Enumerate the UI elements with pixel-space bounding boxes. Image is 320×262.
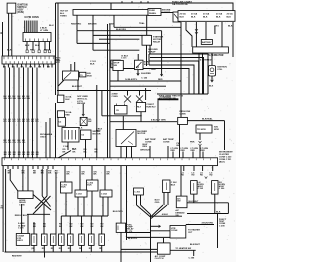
svg-text:ASSY: ASSY [17,239,23,242]
EGR solenoid [135,60,144,69]
wire [64,166,66,182]
svg-text:BK: BK [94,174,97,176]
cigar lighter [16,234,29,246]
wire drop fuse panel [146,16,148,36]
stubs into bar right [172,152,174,158]
wire [74,62,76,71]
svg-text:BK: BK [8,154,11,156]
wire [21,204,23,234]
bottom bus [5,251,158,253]
A/C relay [136,103,145,112]
svg-text:BK: BK [95,151,98,153]
battery [201,40,212,45]
wire run y214 [27,213,50,215]
svg-text:C 296: C 296 [219,188,225,190]
svg-text:BK: BK [177,145,180,147]
svg-text:SOL: SOL [144,64,149,66]
ignition coil inner [210,68,214,72]
svg-text:RD: RD [8,121,12,123]
junction crossing wires [33,195,51,211]
crossed wires [124,96,131,103]
svg-text:CONN: CONN [171,230,178,232]
wire [41,169,43,196]
ignition switch S1 [7,3,16,13]
svg-text:RD: RD [192,175,195,177]
svg-text:GRN BLK: GRN BLK [140,150,150,152]
svg-text:BK: BK [107,174,110,176]
svg-text:4 BLK/ORG: 4 BLK/ORG [202,222,214,225]
alternator [193,47,229,53]
wire run R2 [150,58,204,95]
svg-text:RED: RED [44,50,49,52]
component box [58,117,65,126]
wire [140,112,142,122]
wire [10,169,18,191]
svg-text:BLK: BLK [228,26,233,28]
svg-text:RELAY: RELAY [153,41,161,44]
wire [70,64,72,71]
svg-text:CONN: CONN [163,141,170,143]
svg-text:SW: SW [175,215,178,217]
horn component [191,181,198,195]
svg-text:WH: WH [13,98,17,100]
wire [82,104,84,115]
svg-text:4 BLK: 4 BLK [162,213,169,216]
wire [157,100,159,122]
wire stub [44,252,46,258]
svg-text:OG: OG [22,142,26,144]
wire [120,166,122,224]
wire [117,71,119,82]
wire [101,91,103,116]
wire [127,90,129,96]
svg-text:WH: WH [4,98,8,100]
svg-text:BK: BK [63,151,66,153]
wire run y31 [77,30,162,32]
svg-text:BLK: BLK [35,45,40,47]
EGR component [173,12,180,22]
svg-text:BK: BK [67,174,70,176]
wire run y39 [99,38,139,40]
wire [136,195,138,205]
wire [186,22,192,47]
wire [104,166,106,190]
wire [38,42,40,51]
wire [131,147,133,158]
svg-text:OG: OG [8,142,12,144]
wire [8,13,10,56]
wire [187,120,224,122]
wire [45,122,47,158]
connector C1 [23,33,51,42]
wire [232,22,234,57]
switch row bottom stubs [33,245,35,252]
svg-text:20 GA: 20 GA [191,13,198,16]
wire [91,191,93,216]
junction merge wires [137,205,151,217]
svg-text:BLK: BLK [216,212,221,214]
svg-text:TFI MOD: TFI MOD [197,129,206,131]
wire [199,146,201,158]
connector C201 [57,95,64,102]
svg-text:BLK: BLK [180,17,185,19]
bulkhead pin ticks [3,57,5,60]
svg-text:ENGINE: ENGINE [77,103,86,105]
svg-text:BLK: BLK [87,185,92,187]
wire run y27 [114,26,181,28]
wire [107,197,109,216]
svg-text:FUSE LINK CHART: FUSE LINK CHART [172,0,192,3]
svg-text:MOD: MOD [87,76,92,78]
svg-text:BLK: BLK [65,99,70,101]
instrument cluster connector C200 [2,158,218,166]
svg-text:CONN: CONN [112,96,119,98]
svg-text:BK: BK [38,66,42,68]
svg-text:MOTOR: MOTOR [137,133,145,135]
wire [55,3,57,95]
wire [198,53,200,94]
svg-text:BLK: BLK [227,17,232,19]
wire [167,146,169,158]
component box [111,60,121,68]
svg-text:BK: BK [22,154,25,156]
wire [193,194,195,203]
svg-text:CONN: CONN [179,113,186,115]
wire [43,204,45,216]
svg-text:OG: OG [18,142,22,144]
svg-text:OG: OG [13,142,17,144]
connector box C2xx [61,182,73,193]
svg-text:BK: BK [101,226,105,228]
svg-text:C 298: C 298 [189,258,196,260]
svg-text:BLK: BLK [203,17,208,19]
svg-text:RED/WHT: RED/WHT [12,256,22,258]
svg-text:C 241: C 241 [63,145,70,148]
svg-text:20 GA: 20 GA [203,13,210,16]
scan noise [3,2,235,258]
svg-text:BK: BK [73,151,76,153]
svg-text:C 254: C 254 [101,193,108,196]
wire run y203 [187,202,228,204]
wire [180,22,182,94]
A/C demand switch [176,196,187,208]
inline connectors [26,50,28,53]
svg-text:C 261: C 261 [134,192,141,194]
horn relay box [18,191,33,199]
svg-text:BLK/WHT: BLK/WHT [189,201,200,203]
wire run R3 [149,61,199,94]
svg-text:20 GA: 20 GA [216,13,223,16]
svg-text:RD: RD [181,175,184,177]
arrow [160,74,163,76]
wire run y250 [170,249,196,251]
wire [43,214,45,234]
svg-text:RD: RD [22,121,26,123]
svg-text:RD: RD [200,175,203,177]
data link connector [178,117,188,124]
A/C compressor clutch [157,243,170,254]
svg-text:CKT: CKT [188,232,193,234]
C200 top pin nubs [4,158,6,160]
wire [57,3,59,95]
connector C262 [163,180,170,193]
wire [96,85,98,158]
switch/lamp row [31,234,37,245]
wire run R1 [149,54,208,94]
heater connector [170,226,186,239]
wire drop fuse 3 [113,15,115,27]
wire [224,121,226,150]
svg-text:RED: RED [65,115,70,117]
svg-text:TIMES: TIMES [60,16,67,18]
wire [58,80,64,86]
wire [214,26,216,34]
wire [67,142,69,150]
wire [148,54,150,65]
wire [180,166,182,197]
svg-text:RD: RD [18,121,22,123]
wire run y232 [126,232,151,234]
wire [205,22,207,40]
svg-text:20 GA: 20 GA [227,13,234,16]
wire [85,140,87,158]
wire run R5 [120,69,189,95]
svg-text:PNK: PNK [190,142,195,144]
wire top bus y3 [56,3,234,11]
svg-text:RD: RD [13,121,17,123]
wire [49,118,51,158]
wire [214,194,216,213]
svg-text:BK: BK [27,154,30,156]
wire [33,222,35,234]
WOT cutoff bar [158,98,179,100]
svg-text:TEAL: TEAL [139,22,145,25]
wire [65,193,67,216]
svg-text:C 145: C 145 [141,77,148,80]
wire run y230 [151,230,171,232]
tick [147,1,149,3]
svg-text:BLU: BLU [49,25,54,27]
switch row top stubs [60,216,62,234]
stubs below C200 [7,166,9,169]
svg-text:RUN RLY: RUN RLY [146,106,156,108]
svg-text:CONN: CONN [145,141,152,143]
relay label box [79,72,86,77]
wire run y35 [93,35,150,54]
svg-text:MOD: MOD [214,129,219,131]
svg-text:BLK/WHT: BLK/WHT [190,244,201,246]
bulkhead bottom stubs [3,64,5,68]
fuse link arrows [199,141,202,143]
wire drop fuse 2 [92,15,94,50]
ignition coil [209,66,216,77]
svg-text:BK: BK [36,154,39,156]
svg-text:BK: BK [33,173,37,175]
fuse panel label box [148,9,161,16]
wire [32,42,34,51]
wire [102,197,104,216]
component box [196,125,212,133]
svg-text:RED/ORG: RED/ORG [71,24,82,26]
component box [212,181,218,195]
wire [161,12,173,14]
connector box C2xx [100,190,112,197]
wire [2,166,4,252]
svg-text:BATTERY: BATTERY [202,41,212,44]
svg-text:RLY: RLY [137,107,142,109]
svg-text:BK: BK [82,174,85,176]
wire [137,70,139,75]
wire [27,214,29,233]
svg-text:BK: BK [43,226,47,228]
svg-text:BLK/YEL: BLK/YEL [128,238,138,240]
svg-text:GA COLOR GA: GA COLOR GA [172,3,188,6]
svg-text:PANEL: PANEL [149,12,157,15]
svg-text:RD: RD [4,121,8,123]
tick [140,1,142,3]
relay inner contact [64,73,71,80]
wire [27,169,29,191]
wire [91,166,93,180]
svg-text:RD: RD [210,175,213,177]
wire [211,76,213,82]
wire [139,90,141,96]
wire [11,13,13,56]
wire [55,103,57,158]
starter relay K2 [142,35,152,45]
arrow [211,80,214,82]
wire [150,215,152,262]
component box top right [113,60,123,70]
svg-text:BK: BK [47,66,51,68]
wire [161,31,163,76]
svg-text:C 299: C 299 [219,225,226,227]
wiper motor assembly [62,128,79,143]
svg-text:BLK/RED: BLK/RED [141,73,151,75]
wire [110,3,112,10]
wire [5,169,7,252]
connector C202 [57,111,64,118]
4-way connector wires [107,24,109,158]
svg-text:WH: WH [27,98,31,100]
svg-text:BLK: BLK [171,184,176,186]
svg-text:BLK: BLK [7,50,12,52]
wire [121,248,157,250]
svg-text:TO HEATER SW: TO HEATER SW [175,247,191,250]
svg-text:BLK/ORG: BLK/ORG [116,29,126,31]
wire run y81 [110,80,182,82]
svg-text:BROWN: BROWN [88,24,97,26]
wire [149,146,151,158]
svg-text:COIL: COIL [217,69,223,71]
wire [120,232,122,252]
wire [46,169,48,196]
wire run y116 [102,115,142,117]
wire drop fuse 1 [76,15,78,31]
wire [145,88,147,100]
wire [79,166,81,190]
svg-text:BLK: BLK [209,86,214,88]
svg-text:BK: BK [59,226,63,228]
wire [77,197,79,216]
svg-text:C 275: C 275 [18,228,24,230]
wire [77,80,79,91]
wire [26,42,28,51]
svg-text:WH: WH [22,98,26,100]
component box with X [80,117,87,125]
svg-text:OG: OG [4,142,8,144]
svg-text:BLK: BLK [61,187,66,189]
svg-text:PPL: PPL [30,50,35,52]
svg-text:WHT: WHT [55,62,60,64]
svg-text:BLK: BLK [90,64,95,66]
svg-text:BK: BK [4,154,7,156]
connector label box [134,188,144,195]
wire [211,53,213,66]
svg-text:RES: RES [143,146,148,148]
tick [131,1,133,3]
svg-text:14 BLK/PPL: 14 BLK/PPL [125,78,138,81]
wire run y213 [187,213,228,215]
svg-text:RED: RED [96,131,101,133]
wire [199,133,201,140]
connector box C2xx [87,180,99,191]
fuse panel bus [73,10,148,16]
wire [180,94,182,117]
arrow [159,225,161,228]
svg-text:RD: RD [36,121,40,123]
svg-text:4 GRN/RED: 4 GRN/RED [200,59,212,62]
svg-text:BK: BK [18,154,21,156]
fuse link arrows [205,177,208,179]
svg-text:WH: WH [8,98,12,100]
wire run y121 [110,121,177,123]
wire [122,116,124,130]
svg-text:STRAP: STRAP [148,50,156,53]
left connector box [115,106,128,115]
wiper connector box [81,130,92,140]
wire [55,173,57,234]
blower motor M1 [116,130,136,147]
svg-text:ONLY: ONLY [40,137,46,139]
connector box C2xx [75,190,87,197]
wire branch [151,225,161,227]
wire [126,147,128,158]
wire [120,147,122,158]
svg-text:WH: WH [18,98,22,100]
svg-text:BLK: BLK [25,45,30,47]
svg-text:C 253: C 253 [76,194,83,196]
wire run y43 [77,42,110,44]
svg-text:BLK: BLK [191,17,196,19]
svg-text:BK: BK [31,154,34,156]
svg-text:(BLK): (BLK) [219,162,225,164]
bus y94 [157,93,208,95]
wire [120,252,122,262]
svg-text:MOTOR: MOTOR [93,133,101,135]
wire [126,166,128,240]
wire [76,31,78,44]
wire [227,203,229,214]
wire [2,22,4,56]
wire harness verticals [4,68,6,158]
svg-text:ORG: ORG [155,202,160,204]
svg-text:20 GA: 20 GA [180,13,187,16]
wire run y216 [151,215,183,217]
wire [163,238,165,243]
wire [146,45,148,66]
svg-text:4 BLK/LT GRN: 4 BLK/LT GRN [151,118,166,121]
